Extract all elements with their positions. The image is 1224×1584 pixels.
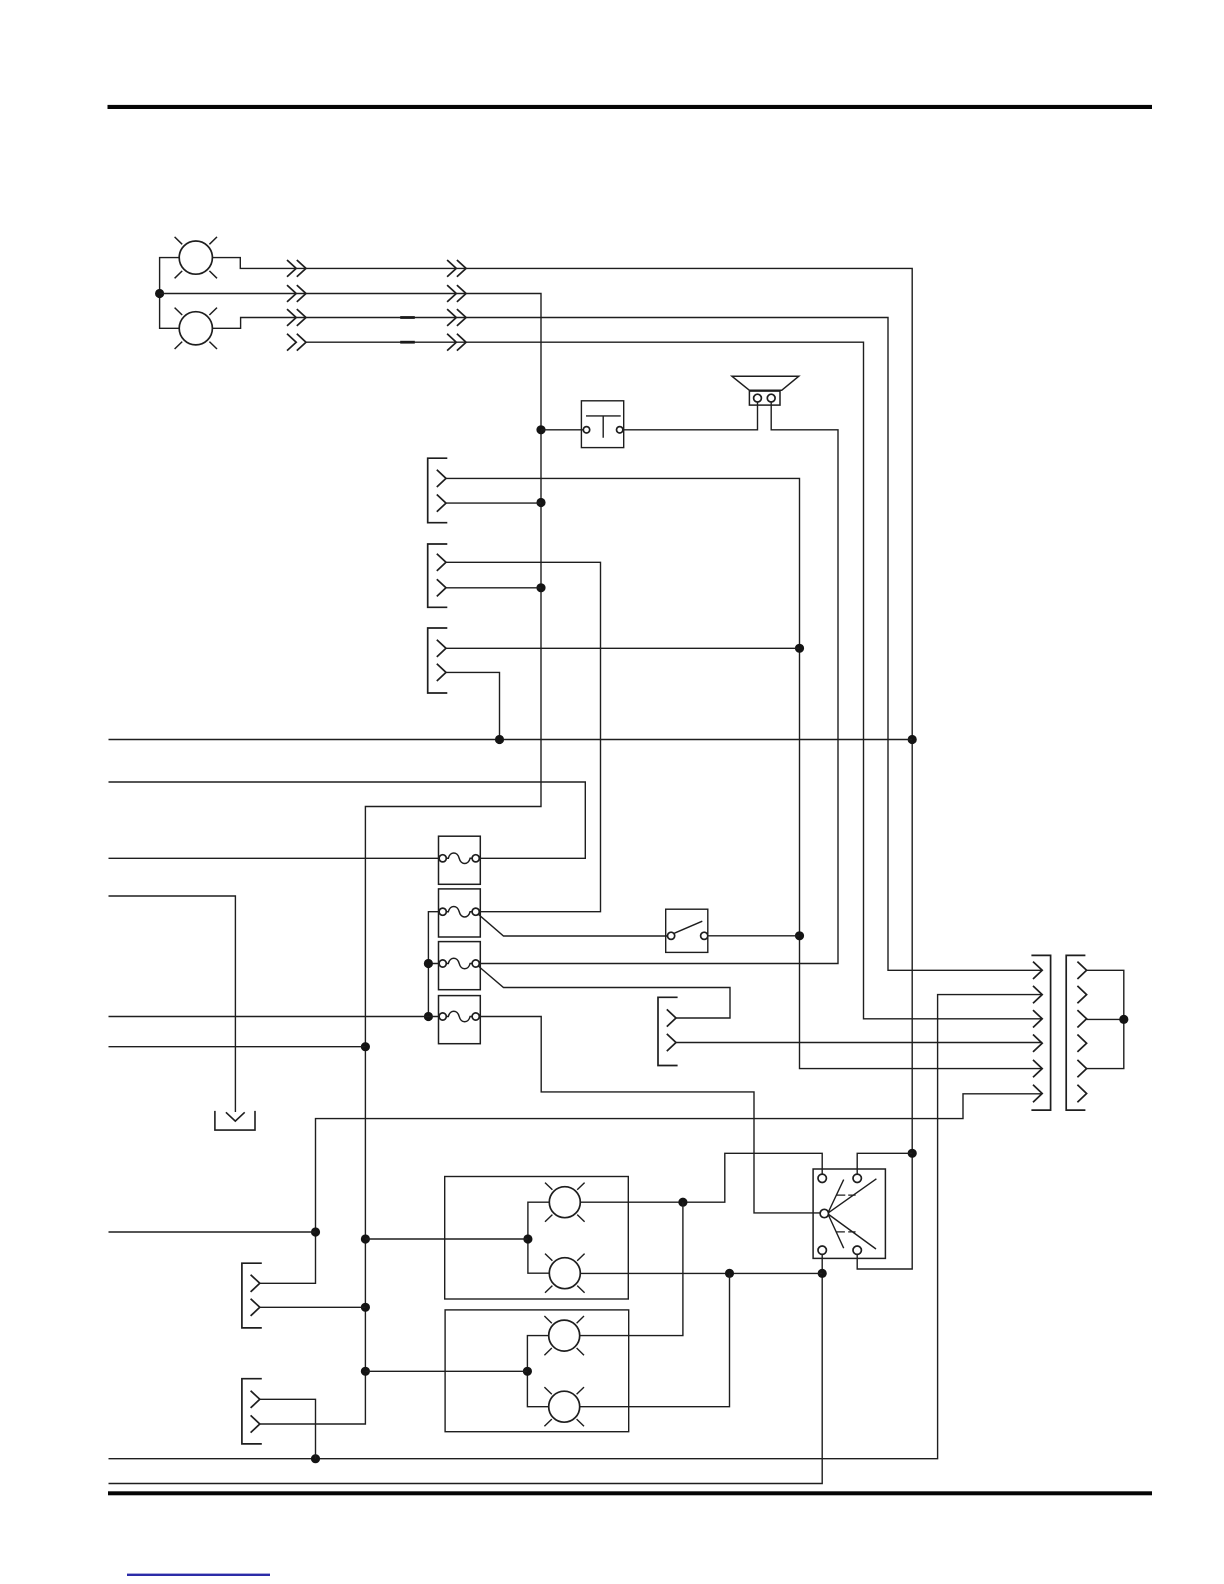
wire: feed to upper lamp bridge [365,1238,528,1240]
wire: feed line y=739.5 from left margin to net1 [109,739,913,741]
node: net1 / feed y=739.5 junction [908,735,917,744]
connector (inline >>) column 2 row 4 [447,334,466,351]
rotary switch S3 contact fan [828,1179,876,1249]
fuse F3 [439,942,481,990]
wire: C4 pin2 to net2 vertical [260,1306,366,1308]
lamp L2 (front turn lamp, bottom) [175,308,217,349]
wire: L6 right up to L4 wire [580,1273,729,1406]
lamp L3 (upper box, top) [545,1183,585,1222]
node: J2 bridge / pin3 [1119,1015,1128,1024]
wire: feed line y=896 to ground arrow [109,896,236,1112]
node: net2 / feed y=1046.7 [361,1042,370,1051]
connector J2 (6-pin, right half) [1066,955,1086,1110]
wire: L5/L6 left bridge [527,1336,548,1407]
node: net2 / connector C2 pin2 [536,583,545,592]
wire: feed line y=858.3 to fuse F1 input [109,857,441,859]
top border rule [108,105,1153,109]
wire: feed line y=782 to fuse F1 output [109,782,586,858]
connector C1 (2-pin) [428,458,448,523]
wire: L4 right to x=822.2 return [580,1272,822,1274]
wire: C2 pin1 to fuse F2 output (via x=600.5) [446,562,601,911]
connector (inline >>) column 2 row 1 [447,260,466,277]
node: net2 / horn-button feed [536,425,545,434]
wire: line y=1118.6 to connector J1 pin6, and down x=315.5 to connector C4 pin1 [260,1094,1042,1284]
connector C6 (2-pin, mid right) [658,997,678,1065]
fuse F2 [439,889,481,937]
wire: C2 pin2 to net2 [446,587,541,589]
connector (inline >>) column 2 row 2 [447,285,466,302]
connector (inline >>) column 1 row 1 [287,260,306,277]
wire: horn button S1 to horn left terminal [623,402,758,430]
node: C3 pin1 junction on x=799.5 [795,644,804,653]
connector (inline >>) column 1 row 2 [287,285,306,302]
connector (inline >>) column 1 row 4 [287,334,306,351]
horn button S1 (push switch) [581,401,623,448]
node: fuse bus / F3 input [424,959,433,968]
wire: feed to lower lamp bridge [365,1370,527,1372]
wire label mark on net3 [400,316,415,319]
lamp L1 (front turn lamp, top) [175,237,217,278]
wire: L3 right to rotary switch top-left pin [580,1153,822,1202]
connector (inline >>) column 1 row 3 [287,309,306,326]
node: switch S2 output junction on x=799.5 [795,931,804,940]
ground (body earth arrow symbol) [215,1111,255,1130]
rotary switch S3 position dashes (lower) [836,1231,856,1233]
wire net4: line y=342.2 from inline connector to x=863.5, down to connector J1 pin3 [306,342,1042,1019]
wire: C1 pin2 to net2 [446,502,541,504]
wire: C1 pin1 to connector J1 pin5 (via x=799.5) [446,478,1042,1068]
node: L4/L6 junction [725,1269,734,1278]
lamp L4 (upper box, bottom) [545,1254,585,1293]
wire: feed line y=1232 from left margin [109,1231,316,1233]
connector C3 (2-pin) [428,628,448,693]
wire: bottom line y=1458.7 up to connector J1 pin2 [109,995,1043,1459]
footer link underline [127,1574,270,1576]
node: C3 pin2 junction on feed y=739.5 [495,735,504,744]
lamp L6 (lower box, bottom) [544,1387,584,1426]
node: net1 / rotary top-right pin junction [908,1149,917,1158]
wire: C5 pin1 down to bottom line y=1458.7 [260,1399,316,1458]
node: lower lamp bridge feed [523,1367,532,1376]
node: lamp L4/L6 return junction on x=822.2 [818,1269,827,1278]
wire net2: lamp common line y=293.5, down x=541, left y=806.5, down x=365.4 to connector C5 pin2 [160,294,541,1425]
wire: fuse F3 output diagonal to connector C6 pin1 [478,966,730,1018]
wire: L5 right up to L3 wire [580,1202,683,1335]
wire: feed line y=1046.7 to net2 vertical [109,1046,366,1048]
wire net3: L2 right, line y=317.5, down x=888 to connector J1 pin1 [212,318,1042,971]
wire: fuse F4 output to rotary switch S3 common pin [479,1017,820,1213]
connector J1 (6-pin, left half) [1031,955,1050,1110]
bottom border rule [108,1491,1152,1495]
wire: L3/L4 left bridge [528,1202,549,1273]
tail lamp unit box (lower) [445,1310,629,1432]
wire: fuse input bus F2-F3-F4 [428,912,440,1017]
wire: C6 pin2 to connector J1 pin4 [676,1042,1042,1044]
node: net2 / lower lamp box feed [361,1367,370,1376]
connector C2 (2-pin) [428,544,448,607]
wire: feed line y=1483.5 from left margin up to rotary switch bottom-left pin [109,1254,823,1483]
node: L3/L5 junction [678,1198,687,1207]
wire: fuse F2 output diagonal to switch S2 [478,914,668,936]
lamp L5 (lower box, top) [544,1316,584,1355]
switch S2 (cutoff switch) [666,909,708,952]
rotary switch S3 position dashes (upper) [836,1194,855,1196]
wire: C3 pin2 down to feed y=739.5 [446,672,500,739]
wire: horn right terminal down to fuse F3 output [479,402,838,964]
wire: switch S2 output to x=799.5 vertical [708,935,800,937]
wire: feed line y=1016.5 to fuse F4 input [109,1016,441,1018]
wire: C3 pin1 to x=799.5 vertical [446,647,800,649]
node: net2 / upper lamp box feed [361,1234,370,1243]
wire lamp L1/L2 left loop [160,258,180,329]
node: feed y=1232 junction [311,1227,320,1236]
connector C4 (2-pin, lower left upper) [242,1263,262,1328]
wire: J2 pins 1-3-5 bridge [1087,970,1124,1068]
node: upper lamp bridge feed [523,1234,532,1243]
rotary switch S3 (turn signal switch) [813,1169,885,1258]
node: fuse bus / F4 input [424,1012,433,1021]
wire: rotary S3 top-right pin to net1 [857,1153,912,1174]
wire net1: L1 right, top line y=268.4, down right side to rotary switch pins [212,258,912,1269]
node: net2 / connector C4 pin2 [361,1303,370,1312]
horn H1 [732,376,799,405]
fuse F4 [439,996,481,1044]
node: C4 pin1 drop on bottom line [311,1454,320,1463]
node: lamp common junction [155,289,164,298]
wire: net2 junction to horn button S1 [541,429,583,431]
fuse F1 [439,836,481,884]
wire label mark on net4 [400,341,415,344]
tail lamp unit box (upper) [445,1177,629,1300]
node: net2 / connector C1 pin2 [536,498,545,507]
connector C5 (2-pin, lower left lower) [242,1379,262,1444]
connector (inline >>) column 2 row 3 [447,309,466,326]
